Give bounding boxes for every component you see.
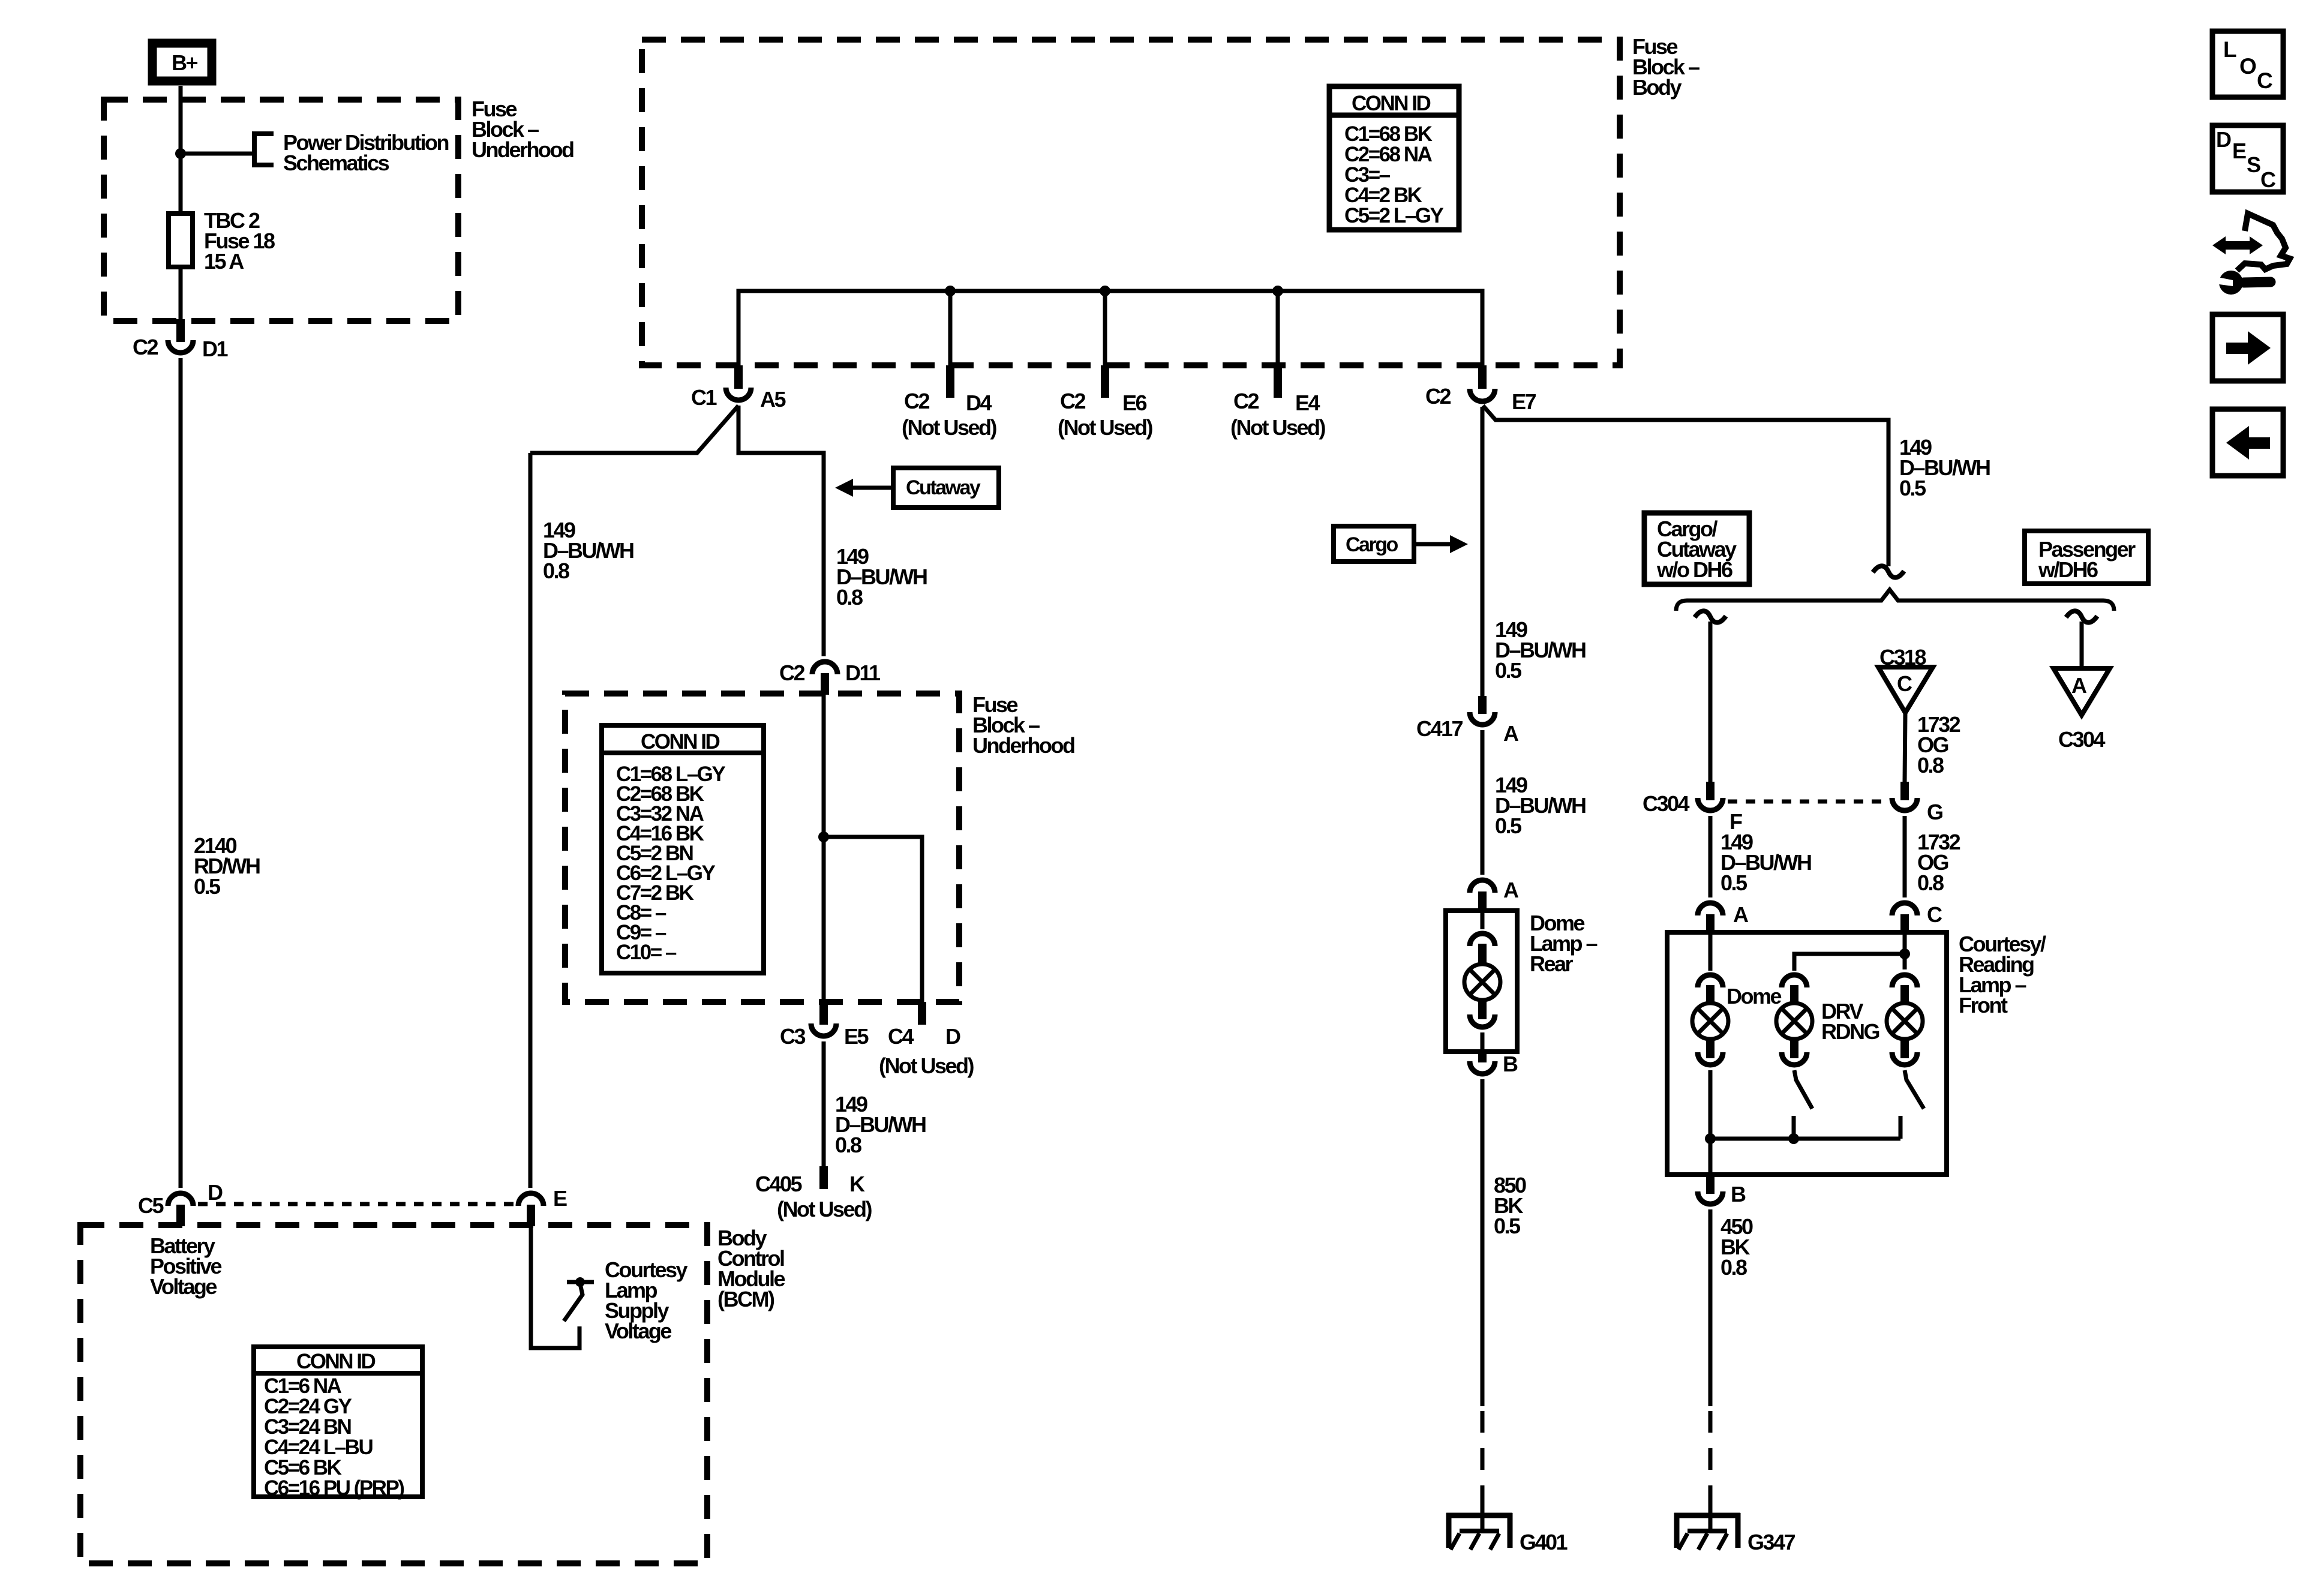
pin C2 E4 not used (1230, 365, 1325, 440)
svg-text:E: E (553, 1186, 567, 1211)
svg-text:(Not Used): (Not Used) (902, 415, 996, 440)
courtesy lamp right branch (1887, 975, 1924, 1139)
inline connector triangle C C318 (1878, 645, 1933, 713)
svg-text:(Not Used): (Not Used) (879, 1053, 974, 1078)
wire A5 down and over to D11 (738, 406, 824, 656)
icon LOC box (2212, 31, 2283, 97)
connector body dashed link C5 to E (198, 1202, 515, 1206)
svg-text:D: D (945, 1024, 960, 1049)
wire D11 through box (822, 695, 826, 1002)
svg-text:C3: C3 (780, 1024, 805, 1049)
wire E7 branch right (1483, 406, 1888, 566)
wire 850 BK 0.5 to ground (1482, 1079, 1526, 1531)
wire left branch down to E (529, 453, 533, 1188)
svg-text:(Not Used): (Not Used) (1058, 415, 1152, 440)
svg-text:(Not Used): (Not Used) (1230, 415, 1325, 440)
svg-text:E: E (2232, 139, 2246, 163)
svg-text:E7: E7 (1512, 389, 1536, 414)
wire B+ to junction (179, 86, 183, 154)
bus wire inside fuse block body (738, 291, 1482, 365)
svg-text:C417: C417 (1416, 716, 1463, 741)
svg-text:BatteryPositiveVoltage: BatteryPositiveVoltage (150, 1233, 222, 1299)
icon DESC box (2212, 125, 2283, 192)
wire E into BCM (531, 1226, 580, 1348)
node bus junction D4 (945, 286, 956, 296)
connector body dashed link F to G (1728, 800, 1888, 804)
connector C5 D (138, 1180, 223, 1226)
svg-text:D1: D1 (202, 337, 228, 361)
connector E (BCM) (518, 1186, 567, 1226)
svg-text:C5: C5 (138, 1193, 164, 1218)
svg-text:C4: C4 (888, 1024, 914, 1049)
pin C405 K not used (755, 1166, 872, 1221)
wire E5 to C405 (824, 1041, 926, 1166)
svg-text:S: S (2247, 152, 2260, 177)
courtesy lamp supply switch (564, 1277, 594, 1321)
cargo cutaway w/o DH6 tag box (1644, 513, 1749, 584)
connector C417 A (1416, 696, 1519, 746)
wire right branch to C304 A (2080, 622, 2084, 668)
right branch break hook (2066, 611, 2097, 622)
svg-text:E4: E4 (1295, 391, 1320, 415)
svg-text:C2: C2 (1425, 384, 1451, 409)
cutaway tag box with arrow (835, 468, 999, 508)
wire break symbol (1873, 566, 1904, 577)
wire C318 to G (1905, 712, 1960, 782)
icon arrow right box (2212, 314, 2283, 381)
courtesy lamp feed wire to middle (1794, 933, 1910, 971)
node bus junction E4 (1272, 286, 1283, 296)
dome lamp rear box (1446, 911, 1517, 1052)
node bus junction E6 (1100, 286, 1110, 296)
svg-text:CONN ID: CONN ID (296, 1350, 376, 1373)
fuse block underhood (top) dashed box (104, 100, 458, 321)
svg-text:CONN ID: CONN ID (1352, 92, 1431, 115)
wire G to courtesy lamp C (1905, 816, 1960, 897)
options brace (1676, 590, 2114, 611)
courtesy reading lamp front box (1667, 932, 1947, 1175)
svg-text:K: K (849, 1172, 865, 1196)
connector B dome lamp rear (1470, 1050, 1518, 1076)
svg-text:L: L (2223, 37, 2236, 62)
ground G401 (1446, 1513, 1568, 1554)
connector A courtesy lamp (1698, 902, 1749, 933)
svg-text:Cargo: Cargo (1346, 533, 1398, 556)
svg-text:D11: D11 (845, 661, 881, 685)
pin C2 D4 not used (902, 365, 996, 440)
courtesy lamp common return wire (1705, 1133, 1900, 1144)
passenger w/DH6 tag box (2025, 531, 2148, 584)
CONN ID table (fuse block body) (1329, 86, 1459, 230)
svg-text:A: A (1733, 902, 1749, 927)
svg-text:E6: E6 (1122, 391, 1147, 415)
icon wiring repair (arrow and wrench) (2212, 214, 2290, 295)
icon arrow left box (2212, 409, 2283, 476)
svg-text:C405: C405 (755, 1172, 803, 1196)
courtesy lamp dome branch (1692, 933, 1781, 1175)
inline connector triangle A C304 (2053, 668, 2110, 752)
wire 450 BK 0.8 to ground (1710, 1209, 1753, 1531)
CONN ID table (BCM) (254, 1347, 422, 1500)
wire branch to C4 D (824, 837, 922, 1002)
wire C417 to dome lamp rear (1482, 730, 1586, 875)
svg-text:B: B (1731, 1182, 1746, 1206)
svg-text:C2: C2 (1060, 389, 1085, 413)
connector B courtesy lamp (1698, 1175, 1746, 1206)
svg-text:C304: C304 (1643, 791, 1690, 816)
connector C courtesy lamp (1892, 902, 1942, 933)
body control module BCM dashed box (80, 1225, 707, 1563)
power distribution schematics reference bracket (254, 134, 274, 165)
svg-text:D: D (2216, 127, 2231, 152)
svg-text:A5: A5 (760, 387, 786, 412)
svg-text:C2: C2 (904, 389, 929, 413)
svg-text:A: A (1503, 721, 1519, 746)
svg-text:G: G (1927, 800, 1942, 824)
svg-text:C: C (1897, 671, 1912, 696)
connector A dome lamp rear (1470, 878, 1519, 912)
wire junction to fuse (179, 154, 183, 214)
connector C3 E5 (780, 1002, 869, 1049)
svg-text:C: C (1927, 902, 1942, 927)
svg-text:C2: C2 (779, 661, 804, 685)
wire A5 branch diagonal to left (530, 406, 738, 453)
wire fuse to connector pin (179, 267, 183, 321)
svg-text:A: A (2071, 673, 2087, 698)
wire F to courtesy lamp A (1710, 816, 1811, 897)
connector C304 F (1643, 782, 1742, 834)
svg-text:C: C (2257, 68, 2272, 93)
svg-text:A: A (1503, 878, 1519, 902)
wire junction to reference bracket (181, 152, 254, 156)
svg-text:B+: B+ (172, 50, 197, 75)
svg-text:Dome: Dome (1727, 984, 1781, 1008)
connector C2 D1 (133, 319, 228, 361)
svg-text:C1: C1 (691, 385, 717, 410)
fuse block underhood dashed box (lower) (565, 694, 959, 1002)
svg-text:O: O (2239, 54, 2256, 79)
power symbol B+ (152, 43, 212, 81)
svg-text:CONN ID: CONN ID (641, 730, 720, 754)
svg-text:G401: G401 (1520, 1530, 1568, 1554)
CONN ID table (fuse block underhood) (602, 725, 764, 973)
connector C1 A5 (691, 365, 786, 412)
fuse block body dashed box (642, 40, 1620, 365)
svg-text:(Not Used): (Not Used) (777, 1197, 872, 1221)
fuse TBC 2 Fuse 18 15 A (169, 208, 275, 274)
svg-text:D4: D4 (966, 391, 992, 415)
svg-text:C2: C2 (133, 335, 158, 359)
left branch break hook (1695, 611, 1726, 622)
node junction below B+ (175, 148, 186, 159)
wire left branch to C304 F (1709, 622, 1713, 782)
svg-text:Cutaway: Cutaway (906, 476, 981, 499)
svg-text:G347: G347 (1747, 1530, 1795, 1554)
pin C4 D not used (879, 1002, 974, 1078)
connector C2 E7 (1425, 365, 1536, 414)
svg-text:C2: C2 (1233, 389, 1259, 413)
svg-text:C304: C304 (2058, 727, 2106, 752)
wire E7 down to C417 (1481, 407, 1485, 696)
node junction to C4 branch (818, 831, 829, 842)
svg-text:E5: E5 (844, 1024, 869, 1049)
pin C2 E6 not used (1058, 365, 1152, 440)
connector C2 D11 (779, 661, 881, 695)
svg-text:B: B (1503, 1052, 1518, 1076)
wire 2140 RD/WH 0.5 (181, 358, 260, 1188)
connector G (1892, 782, 1942, 824)
courtesy lamp DRV RDNG middle branch (1776, 975, 1879, 1139)
dome lamp rear internals (1464, 912, 1500, 1052)
ground G347 (1674, 1513, 1795, 1554)
cargo tag box with arrow (1334, 526, 1468, 562)
svg-text:D: D (208, 1180, 223, 1205)
svg-text:C: C (2260, 167, 2276, 192)
